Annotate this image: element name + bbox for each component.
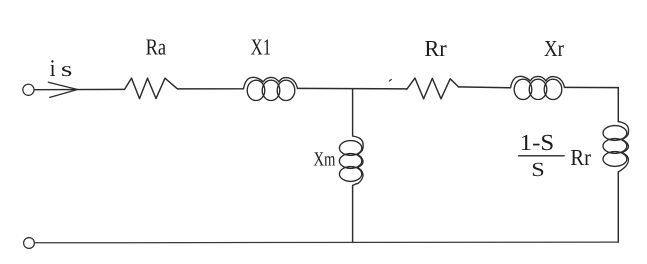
wire middle branch bottom [352, 186, 354, 243]
arrow current is [48, 82, 77, 97]
inductor X1 [244, 77, 298, 100]
resistor Rr [407, 78, 459, 99]
wire Rr to Xr [459, 86, 511, 89]
terminal upper-left [23, 84, 34, 95]
wire bottom rail [34, 241, 618, 244]
svg-text:Xr: Xr [544, 36, 564, 61]
wire Xr to right corner [565, 86, 619, 88]
wire top-left [34, 88, 124, 90]
svg-text:S: S [531, 159, 545, 181]
wire middle branch top [352, 89, 354, 136]
resistor Ra [125, 78, 178, 99]
svg-text:Xm: Xm [313, 149, 335, 171]
svg-text:s: s [61, 57, 73, 81]
inductor Xm [339, 136, 363, 186]
svg-text:Ra: Ra [146, 34, 167, 59]
svg-text:X1: X1 [251, 34, 271, 59]
wire right branch bottom [617, 172, 619, 242]
svg-text:Rr: Rr [424, 36, 447, 61]
wire right branch top [617, 88, 619, 122]
svg-text:1-S: 1-S [520, 130, 554, 155]
svg-text:i: i [50, 56, 56, 82]
terminal lower-left [24, 238, 35, 249]
wire X1 to Rr with junction [298, 87, 407, 90]
fraction bar [519, 155, 565, 157]
resistor (1-S)/S Rr drawn as coil [603, 122, 629, 172]
inductor Xr [511, 76, 565, 99]
svg-text:Rr: Rr [570, 145, 591, 170]
wire Ra to X1 [178, 88, 244, 90]
ink speck [389, 79, 391, 81]
